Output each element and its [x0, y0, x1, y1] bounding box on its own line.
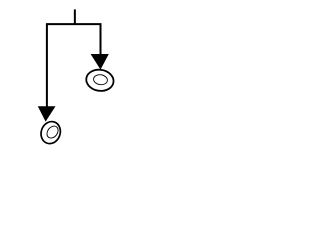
node donut left inner	[45, 124, 61, 140]
wire top stub	[74, 9, 76, 24]
node donut right outer	[85, 68, 115, 93]
arrowhead right	[91, 54, 109, 70]
wire T branch	[47, 24, 101, 107]
node donut left outer	[38, 119, 63, 147]
node donut right inner	[93, 74, 108, 86]
arrowhead left	[38, 106, 56, 121]
